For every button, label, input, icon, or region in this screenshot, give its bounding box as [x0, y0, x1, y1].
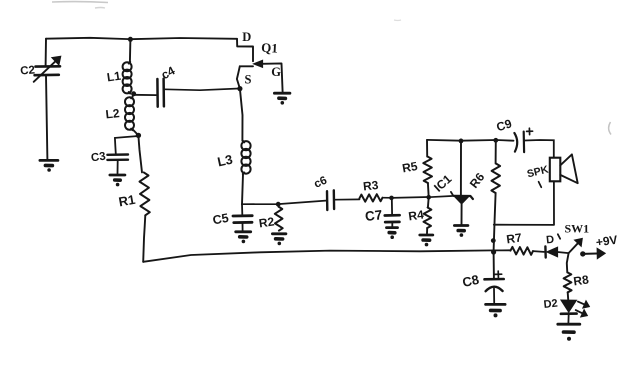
- wire left drop to C2: [45, 39, 47, 66]
- wire junction to L1: [129, 39, 132, 62]
- wire C4 to S node: [164, 89, 239, 91]
- ground D2: [558, 324, 580, 341]
- resistor R1: [117, 172, 149, 215]
- svg-text:L1: L1: [106, 69, 122, 85]
- diode D1: [545, 234, 568, 258]
- label S: [245, 73, 252, 87]
- svg-text:C2: C2: [20, 64, 36, 77]
- wire R4 node to IC1: [429, 192, 454, 197]
- wire S to L3: [240, 89, 243, 141]
- svg-text:C7: C7: [364, 207, 383, 224]
- svg-text:C3: C3: [90, 151, 106, 165]
- svg-text:C5: C5: [212, 211, 230, 228]
- ground C8: [486, 304, 506, 317]
- inductor L3: [216, 141, 251, 174]
- wire R1 to bus: [143, 215, 145, 261]
- label G: [271, 65, 281, 79]
- wire C9 to speaker: [524, 140, 553, 158]
- smudge top: [52, 2, 611, 135]
- svg-text:L3: L3: [216, 152, 234, 170]
- svg-text:R2: R2: [258, 214, 275, 230]
- svg-text:G: G: [271, 65, 281, 79]
- capacitor C8: [461, 252, 504, 303]
- node IC1 rail junction: [459, 139, 464, 144]
- svg-text:S: S: [245, 73, 252, 87]
- ground C5: [236, 232, 251, 243]
- svg-text:D: D: [546, 234, 555, 247]
- ground C3: [110, 175, 125, 186]
- node L1-L2-C4 junction: [131, 91, 136, 96]
- label Q1: [261, 40, 278, 56]
- svg-text:R5: R5: [401, 159, 419, 176]
- svg-text:+9V: +9V: [595, 233, 618, 250]
- svg-text:R4: R4: [407, 207, 424, 223]
- capacitor C9: [495, 116, 533, 152]
- svg-text:R7: R7: [505, 230, 522, 246]
- diode IC1: [431, 141, 473, 225]
- wire junction to C4: [134, 94, 156, 96]
- wire drain step: [237, 39, 253, 61]
- resistor R5: [401, 140, 432, 197]
- capacitor C6: [312, 175, 334, 210]
- svg-text:D2: D2: [543, 298, 558, 311]
- wire speaker return: [494, 181, 554, 225]
- node R6 dot: [491, 238, 496, 243]
- wire R3 to node: [383, 197, 392, 199]
- wire bottom bus: [143, 250, 510, 261]
- wire SW node to R8: [567, 253, 569, 272]
- wire top rail left: [46, 38, 237, 39]
- resistor R6: [467, 140, 500, 250]
- wire C3 to ground: [117, 160, 119, 173]
- resistor R4: [407, 197, 431, 233]
- node top-left junction: [128, 37, 133, 42]
- svg-text:Q1: Q1: [261, 40, 278, 56]
- resistor R8: [564, 272, 590, 299]
- svg-text:L2: L2: [105, 106, 121, 121]
- ground IC1: [454, 226, 468, 237]
- wire junction to R1: [138, 135, 142, 172]
- node S junction: [237, 86, 242, 91]
- node L2-C3-R1 junction: [136, 133, 141, 138]
- ground R4: [420, 235, 433, 246]
- wire top supply rail: [427, 139, 514, 142]
- node R2 junction: [276, 202, 281, 207]
- LED D2: [543, 298, 589, 317]
- wire source jog: [237, 66, 253, 88]
- resistor R3: [360, 178, 383, 202]
- ground Q1 gate: [274, 93, 290, 104]
- ground C7: [387, 228, 398, 239]
- capacitor C4: [157, 63, 177, 106]
- resistor R7: [505, 230, 543, 254]
- wire C2 to ground: [46, 76, 47, 160]
- node C7 junction: [389, 196, 394, 201]
- wire junction to C3: [115, 136, 138, 154]
- ground R2: [272, 234, 286, 245]
- node bus-C8 junction: [491, 249, 496, 254]
- wire C6 to R3: [335, 198, 360, 200]
- node R4-R5 junction: [426, 195, 431, 200]
- resistor R2: [258, 207, 283, 231]
- svg-text:D: D: [242, 30, 251, 44]
- wire D2 to ground: [567, 314, 569, 323]
- wire node to C6: [242, 201, 326, 205]
- capacitor C7: [364, 198, 399, 227]
- node R6 rail junction: [493, 138, 498, 143]
- speaker SPK: [526, 154, 578, 187]
- battery +9V arrow: [580, 233, 618, 259]
- capacitor C2: [20, 56, 61, 82]
- wire L3 to node: [242, 174, 243, 204]
- svg-text:R8: R8: [572, 272, 589, 288]
- switch SW1: [565, 222, 590, 254]
- svg-text:R1: R1: [117, 192, 136, 210]
- transistor Q1 gate arrow: [254, 60, 263, 67]
- wire node to R4 node: [392, 196, 429, 199]
- label D: [242, 30, 251, 44]
- inductor L2: [105, 97, 139, 136]
- wire gate to ground: [263, 63, 283, 91]
- svg-text:SW1: SW1: [565, 222, 590, 236]
- inductor L1: [106, 62, 132, 94]
- svg-text:R3: R3: [362, 178, 379, 194]
- capacitor C5: [212, 204, 253, 230]
- capacitor C3: [90, 151, 128, 165]
- ground C2: [40, 160, 58, 171]
